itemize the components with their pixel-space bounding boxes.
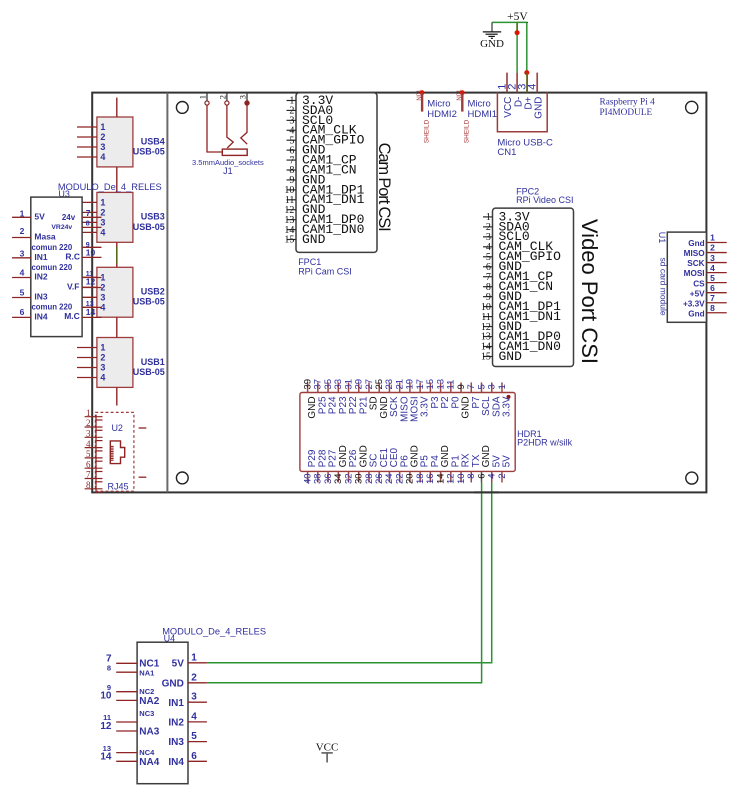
svg-text:8: 8 [710,303,715,313]
FPC2 pin 7 CAM1_CP [483,269,553,284]
svg-text:IN3: IN3 [168,737,184,748]
svg-text:NA4: NA4 [139,757,159,768]
svg-text:1: 1 [100,122,105,132]
svg-text:6: 6 [20,307,25,317]
svg-text:8: 8 [86,480,91,490]
HDR1 pin 35 P24 [323,379,339,414]
svg-text:Masa: Masa [34,232,56,242]
U4 pin 10 NA2 [100,691,159,707]
HDR1 pin 12 P1 [446,455,462,484]
FPC1 pin 4 CAM_CLK [287,123,357,138]
U2 pin 5 [85,449,103,461]
CN1 pin 3 D+ [517,73,535,110]
J1 contact wire pin3 [241,105,247,144]
U1 pin 2 MISO [684,243,727,258]
svg-text:+5V: +5V [507,11,528,23]
CN1 pin 2 D- [507,73,525,108]
U2 pin 8 [85,480,103,492]
svg-text:2: 2 [20,226,25,236]
svg-text:CN1: CN1 [497,147,516,158]
U3 pin 4 IN2 [12,267,48,281]
U1 pin 6 +5V [690,283,727,298]
mounting hole bottom-left [176,472,188,484]
svg-text:2: 2 [100,353,105,363]
connector USB2 USB-05 [77,267,165,317]
U3 pin 5 IN3 [12,287,48,301]
wire green overlap USB3-USB2 [116,247,118,264]
FPC1 pin 12 GND [284,202,325,217]
module U1 sd card module [657,232,707,323]
svg-text:5V: 5V [502,455,513,468]
U2 pin 4 [85,439,103,451]
HDR1 pin 6 GND [476,445,492,482]
FPC1 pin 13 CAM1_DP0 [284,212,364,227]
svg-text:8: 8 [86,221,90,228]
svg-text:HDMI1: HDMI1 [468,109,498,120]
HDR1 pin 7 P7 [466,382,482,408]
wire USB4 to USB3 [116,167,118,193]
power +5V symbol [507,11,528,23]
wire GND net HDR1 pin6 to U4 [207,483,482,683]
svg-text:PI4MODULE: PI4MODULE [600,108,653,118]
U4 pin 9 NC2 [107,683,154,696]
U3 pin 3 IN1 [12,248,48,262]
svg-text:IN1: IN1 [168,698,184,709]
FPC1 pin 10 CAM1_DP1 [284,182,364,197]
HDR1 pin 19 MOSI [405,379,421,422]
svg-text:1: 1 [710,233,715,243]
svg-text:RJ45: RJ45 [107,482,128,492]
svg-text:J1: J1 [223,166,233,176]
svg-text:NC2: NC2 [139,687,154,696]
svg-text:Gnd: Gnd [688,309,704,318]
wire +5V to pin2 [516,22,518,72]
HDR1 pin 31 P22 [343,379,359,414]
svg-text:NC4: NC4 [139,748,155,757]
U3 pin 13 comun 220 [31,301,101,311]
HDR1 pin 8 TX [466,454,482,482]
U4 pin 4 IN2 [168,711,207,728]
U4 pin 6 IN4 [168,751,207,768]
svg-text:3: 3 [100,142,105,152]
svg-text:comun 220: comun 220 [31,263,72,272]
FPC1 pin 2 SDA0 [287,103,334,118]
U2 pin 3 [85,429,103,441]
HDR1 pin 21 MISO [394,379,410,422]
svg-text:USB-05: USB-05 [133,146,165,156]
svg-text:MODULO_De_4_RELES: MODULO_De_4_RELES [162,627,266,637]
svg-text:Raspberry Pi 4: Raspberry Pi 4 [600,97,656,107]
U4 pin 7 NC1 [106,654,160,670]
FPC2 pin 11 CAM1_DN1 [481,309,561,324]
svg-text:3: 3 [191,692,197,703]
svg-text:GND: GND [533,97,544,119]
module U4 MODULO_De_4_RELES [137,627,266,784]
svg-text:4: 4 [710,263,715,273]
U1 pin 3 SCK [687,253,726,268]
svg-text:2: 2 [710,243,715,253]
module U3 MODULO_De_4_RELES [31,182,162,337]
HDR1 pin 15 P3 [425,379,441,409]
svg-text:1: 1 [20,208,25,218]
svg-text:5V: 5V [34,211,45,221]
connector USB4 USB-05 [77,117,165,167]
CN1 labels [497,137,553,158]
svg-text:CS: CS [693,279,705,288]
FPC1 pin 6 GND [287,143,326,158]
svg-text:12: 12 [86,277,96,287]
FPC1 pin 9 GND [287,172,326,187]
connector FPC1 [296,93,377,253]
svg-text:Gnd: Gnd [688,239,704,248]
board outline PI4MODULE [92,93,706,493]
U4 pin 14 NA4 [100,752,159,768]
J1 pin 2 [218,93,229,106]
svg-text:USB2: USB2 [141,287,165,297]
svg-text:2: 2 [191,672,197,683]
U2 pin 1 [85,408,103,420]
svg-text:7: 7 [710,293,715,303]
FPC1 pin 15 GND [284,232,325,247]
svg-text:GND: GND [302,232,326,247]
wire USB2 to USB1 [116,317,118,337]
FPC2 labels [516,187,573,205]
svg-text:MISO: MISO [684,249,706,258]
U1 pin 1 Gnd [688,233,726,248]
wire 5V net HDR1 pin4 to U4 [207,483,492,663]
FPC1 pin 8 CAM1_CN [287,162,357,177]
U4 pin 11 NC3 [103,709,154,722]
HDR1 pin 34 GND [333,445,349,484]
HDR1 pin 37 P25 [313,379,329,414]
svg-text:SHEILD: SHEILD [423,119,430,143]
svg-text:3: 3 [100,292,105,302]
junction dot A [515,30,520,35]
J1 body rect [222,149,247,155]
FPC1 pin 3 SCL0 [287,113,334,128]
svg-text:4: 4 [86,439,91,449]
U2 pin 2 [85,418,103,430]
HDR1 pin 32 P26 [343,449,359,484]
U3 pin 8 VR24v [51,221,101,232]
HDR1 pin 13 P2 [435,379,451,409]
wire green over pin3 stub [526,73,528,93]
HDR1 pin 17 3.3V [415,379,431,417]
svg-text:GND: GND [480,38,504,50]
svg-text:Cam Port CSI: Cam Port CSI [375,143,393,232]
HDR1 pin 14 GND [435,445,451,484]
svg-text:8: 8 [107,663,111,672]
wire below USB1 [116,387,118,405]
FPC2 pin 15 GND [481,349,522,364]
HDR1 pin1 marker dot [507,395,511,399]
power GND symbol [480,22,504,50]
svg-text:3: 3 [710,253,715,263]
J1 pin 3 [238,93,249,106]
U1 pin 4 MOSI [684,263,727,278]
svg-text:6: 6 [710,283,715,293]
svg-text:IN2: IN2 [168,718,184,729]
svg-text:NA2: NA2 [139,696,159,707]
svg-text:P2HDR w/silk: P2HDR w/silk [517,438,573,448]
U2 right stub b [139,476,147,478]
HDR1 pin 18 P5 [415,455,431,484]
svg-text:2: 2 [86,418,91,428]
svg-text:+5V: +5V [690,289,705,298]
FPC2 pin 1 3.3V [483,209,530,224]
svg-text:NA3: NA3 [139,727,159,738]
FPC2 pin 5 CAM_GPIO [483,249,561,264]
J1 pin 1 [198,93,209,106]
HDR1 pin 20 GND [405,445,421,484]
svg-text:MOSI: MOSI [684,269,705,278]
HDR1 pin 22 P6 [394,455,410,484]
svg-text:4: 4 [100,373,105,383]
U2 rj45 jack icon [110,441,124,464]
svg-text:1: 1 [191,652,197,663]
svg-text:4: 4 [20,267,25,277]
svg-text:7: 7 [86,208,91,218]
svg-text:N01: N01 [417,89,423,101]
HDR1 pin 26 CE1 [374,448,390,484]
connector USB3 USB-05 [77,192,165,242]
FPC1 pin 7 CAM1_CP [287,152,357,167]
svg-text:1: 1 [100,343,105,353]
svg-text:RPi Video CSI: RPi Video CSI [516,195,573,205]
HDR1 pin 10 RX [456,453,472,484]
HDR1 pin 11 P0 [446,380,462,409]
FPC2 pin 10 CAM1_DP1 [481,299,561,314]
FPC2 pin 3 SCL0 [483,229,530,244]
connector U2 RJ45 [95,412,133,491]
connector USB1 USB-05 [77,338,165,388]
FPC2 pin 13 CAM1_DP0 [481,329,561,344]
svg-text:IN1: IN1 [34,252,48,262]
svg-text:N01: N01 [457,89,463,101]
mounting hole top-left [176,102,188,114]
J1 sleeve contact wire pin1 [207,105,222,152]
svg-text:3: 3 [100,363,105,373]
HDR1 pin 4 5V [487,455,503,483]
svg-text:5: 5 [86,449,91,459]
svg-text:V.F: V.F [67,281,79,291]
HDR1 pin 30 GND [354,445,370,484]
U4 pin 3 IN1 [168,692,207,709]
svg-text:USB-05: USB-05 [133,297,165,307]
svg-text:U2: U2 [111,423,123,433]
svg-text:3.3V: 3.3V [502,396,513,417]
svg-text:+3.3V: +3.3V [683,299,705,308]
wire +5V stub overlap dark [516,22,518,32]
svg-text:12: 12 [100,721,112,732]
U4 pin 12 NA3 [100,721,159,737]
mounting hole top-right [686,101,698,113]
wire above USB4 [116,98,118,117]
svg-text:4: 4 [100,227,105,237]
svg-text:sd card module: sd card module [659,258,669,316]
connector FPC2 [493,208,574,366]
HDR1 pin 2 5V [497,455,513,483]
svg-text:IN4: IN4 [168,757,184,768]
U3 pin 9 comun 220 [31,242,101,252]
svg-text:USB3: USB3 [141,212,165,222]
connector Micro HDMI1 shield pin [457,89,497,143]
U4 pin 1 5V [172,652,207,669]
svg-text:1: 1 [86,408,91,418]
U2 pin 6 [85,459,103,471]
svg-text:3: 3 [20,248,25,258]
svg-text:Video Port CSI: Video Port CSI [577,219,602,364]
U3 pin 10 R.C [65,248,101,262]
power VCC symbol [316,742,339,763]
svg-text:6: 6 [191,751,197,762]
junction dot B [524,70,529,75]
J1 contact wire pin2 [227,105,233,148]
U3 pin 12 V.F [67,277,101,292]
U1 pin 8 Gnd [688,303,726,318]
svg-text:5: 5 [710,273,715,283]
svg-text:USB4: USB4 [141,136,165,146]
svg-text:5: 5 [20,287,25,297]
U4 pin 8 NA1 [107,663,154,677]
wire inner board divider [166,93,168,493]
U2 pin 7 [85,470,103,482]
U4 pin 2 GND [162,672,207,689]
connector J1 3.5mmAudio_sockets [192,158,264,176]
HDR1 pin 27 SD [364,379,380,410]
svg-text:3: 3 [86,429,91,439]
HDR1 pin 3 SDA [487,382,503,417]
svg-text:R.C: R.C [65,251,80,261]
U3 pin 2 Masa [12,226,56,242]
svg-text:5: 5 [191,731,197,742]
FPC2 pin 2 SDA0 [483,219,530,234]
svg-text:USB1: USB1 [141,357,165,367]
svg-text:4: 4 [527,84,539,90]
U3 pin 7 24v [62,208,102,222]
HDR1 pin 28 SC [364,453,380,483]
svg-text:2: 2 [497,473,508,478]
svg-text:14: 14 [86,307,96,317]
HDR1 pin 24 CE0 [384,448,400,484]
CN1 pin 1 VCC [496,73,514,118]
HDR1 pin 38 P28 [313,449,329,484]
HDR1 pin 1 3.3V [497,382,513,417]
HDR1 pin 33 P23 [333,379,349,414]
HDR1 pin 16 P4 [425,455,441,484]
svg-text:NA1: NA1 [139,668,154,677]
HDR1 pin 9 GND [456,382,472,418]
U2 right stub a [139,427,147,429]
svg-text:M.C: M.C [64,311,80,321]
U3 pin 6 IN4 [12,307,48,321]
FPC2 pin 4 CAM_CLK [483,239,553,254]
U1 pin 5 CS [693,273,726,288]
svg-text:HDMI2: HDMI2 [427,109,457,120]
FPC1 pin 11 CAM1_DN1 [285,192,365,207]
HDR1 labels [517,429,573,448]
HDR1 pin 29 P21 [354,379,370,414]
mounting hole bottom-right [686,472,698,484]
U3 pin 11 comun 220 [31,263,101,278]
svg-text:4: 4 [100,152,105,162]
svg-text:NC3: NC3 [139,709,154,718]
wire +5V horizontal [492,21,527,23]
FPC1 pin 14 CAM1_DN0 [284,222,364,237]
U4 pin 5 IN3 [168,731,207,748]
svg-text:1: 1 [497,384,508,389]
svg-text:6: 6 [86,459,91,469]
FPC2 pin 6 GND [483,259,522,274]
svg-text:VCC: VCC [316,742,339,754]
wire +5V to pin3 [526,22,528,72]
svg-text:15: 15 [481,352,491,363]
svg-text:15: 15 [284,235,294,246]
svg-text:VR24v: VR24v [51,224,72,231]
svg-text:10: 10 [86,248,96,258]
FPC2 pin 8 CAM1_CN [483,279,553,294]
svg-text:3: 3 [100,217,105,227]
svg-text:RPi Cam CSI: RPi Cam CSI [298,266,352,276]
svg-text:14: 14 [100,752,112,763]
FPC1 pin 1 3.3V [287,93,334,108]
FPC1 pin 5 CAM_GPIO [287,133,365,148]
svg-text:SCK: SCK [687,259,704,268]
svg-text:1: 1 [100,197,105,207]
HDR1 pin 40 P29 [302,449,318,484]
connector Micro HDMI2 shield pin [417,89,457,143]
U3 pin 1 5V [12,208,45,221]
svg-text:2: 2 [100,132,105,142]
svg-text:5V: 5V [172,658,185,669]
connector CN1 Micro USB-C [497,92,547,131]
FPC1 labels [298,257,352,276]
svg-text:USB-05: USB-05 [133,222,165,232]
svg-text:MODULO_De_4_RELES: MODULO_De_4_RELES [58,182,162,192]
svg-text:24v: 24v [62,213,76,222]
wire USB3 to USB2 [116,242,118,267]
HDR1 pin 39 GND [302,379,318,419]
HDR1 pin 25 GND [374,379,390,419]
svg-text:U1: U1 [657,232,667,244]
svg-text:IN4: IN4 [34,312,48,322]
U4 pin 13 NC4 [103,744,155,757]
svg-text:7: 7 [86,470,91,480]
svg-text:SHEILD: SHEILD [464,119,471,143]
connector HDR1 P2HDR w/silk [300,393,515,472]
svg-text:IN3: IN3 [34,292,48,302]
svg-text:1: 1 [198,95,208,99]
svg-text:GND: GND [162,678,184,689]
CN1 pin 4 GND [527,73,545,119]
U3 pin 14 M.C [64,307,101,321]
HDR1 pin 23 SCK [384,379,400,417]
svg-text:2: 2 [218,95,228,99]
HDR1 pin 5 SCL [476,382,492,415]
FPC2 pin 14 CAM1_DN0 [481,339,561,354]
svg-text:4: 4 [191,711,197,722]
svg-text:IN2: IN2 [34,272,48,282]
svg-text:2: 2 [100,207,105,217]
U1 pin 7 +3.3V [683,293,727,308]
HDR1 pin 36 P27 [323,449,339,484]
FPC2 pin 9 GND [483,289,522,304]
svg-text:3: 3 [238,95,248,99]
svg-text:10: 10 [100,691,112,702]
wire board bottom edge overlay [474,491,499,493]
svg-text:GND: GND [499,349,523,364]
svg-text:USB-05: USB-05 [133,367,165,377]
